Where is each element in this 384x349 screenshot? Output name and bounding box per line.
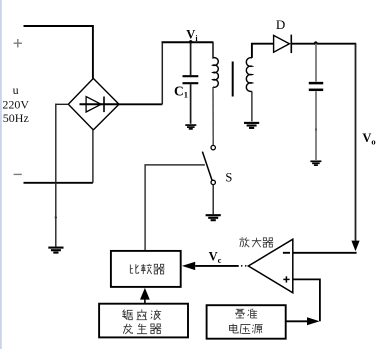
wire secondary bottom [251, 91, 253, 121]
plus pin symbol [283, 276, 289, 282]
svg-text:220V: 220V [2, 98, 29, 112]
capacitor C1 [190, 42, 192, 124]
label text 发生器 [123, 324, 132, 334]
minus pin symbol [283, 252, 290, 254]
node + terminal label [14, 39, 22, 47]
transformer secondary winding [246, 58, 252, 92]
node Vi dot [189, 40, 193, 44]
bridge rectifier diamond [68, 78, 119, 129]
wire secondary top to diode [252, 44, 274, 58]
wire Vc output [195, 265, 239, 267]
switch S [211, 145, 215, 149]
ground (bridge left) [48, 248, 63, 253]
diode D [274, 35, 292, 54]
wire comparator control to switch [145, 165, 205, 250]
wire plus input to bridge top [24, 26, 93, 78]
wire sawtooth to comparator arrow [144, 299, 146, 304]
wire bridge left corner down [56, 104, 69, 247]
reference box 基准电压源 [207, 305, 286, 339]
ground (secondary) [244, 123, 259, 128]
wire riser [161, 42, 163, 104]
capacitor C2 (output) [315, 44, 317, 160]
svg-text:u: u [13, 83, 19, 97]
junction blob [55, 216, 57, 218]
wire Vo vertical [355, 44, 357, 241]
op-amp output dash dots [245, 265, 247, 267]
label text 基准 [235, 309, 245, 318]
wire Vi rail [162, 41, 214, 43]
transformer primary winding [213, 42, 218, 87]
node - terminal label [14, 173, 22, 175]
op-amp U1 [248, 239, 292, 293]
svg-text:S: S [225, 171, 232, 185]
arrow Vo down [351, 241, 359, 252]
switch bottom contact [211, 180, 215, 184]
svg-text:50Hz: 50Hz [3, 111, 29, 125]
wire bridge right corner to Vi rail [119, 103, 162, 105]
switch lever [202, 152, 212, 181]
wire op-amp plus input to reference [293, 279, 320, 321]
wire op-amp minus input [293, 252, 357, 254]
node junction dot [314, 41, 318, 45]
bridge diode symbol [80, 97, 120, 113]
comparator box 比较器 [111, 251, 181, 287]
wire switch to ground [212, 185, 214, 215]
sawtooth generator box 锯齿波发生器 [99, 304, 188, 338]
wire primary to switch [212, 87, 214, 145]
label u 220V 50Hz [2, 83, 29, 125]
svg-text:D: D [276, 17, 285, 32]
ground (switch) [206, 215, 221, 220]
tick on stem [315, 128, 317, 130]
wire bridge bottom corner [92, 130, 94, 183]
transformer core [232, 62, 234, 97]
left page edge line [0, 0, 2, 349]
wire diode to Vo corner [291, 43, 356, 45]
label text 电压源 [229, 324, 238, 333]
wire reference output [286, 320, 308, 322]
wire minus input [24, 182, 93, 184]
ground (output cap) [310, 161, 321, 165]
label amplifier 放大器 [239, 237, 249, 247]
label text 锯齿波 [122, 310, 132, 320]
label text 比较器 [130, 264, 138, 273]
ground (C1) [185, 125, 196, 129]
arrow into comparator [182, 262, 195, 270]
arrow into node [307, 317, 320, 325]
